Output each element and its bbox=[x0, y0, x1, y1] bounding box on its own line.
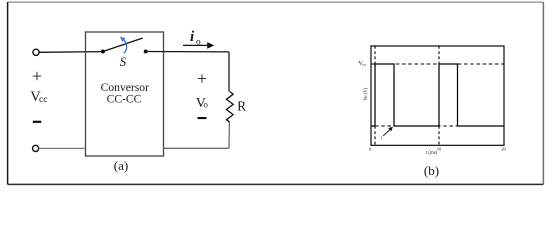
graph annotation arrow t1 bbox=[381, 127, 393, 141]
wire bottom-right corner to box bbox=[164, 147, 230, 149]
current arrow io bbox=[183, 42, 214, 49]
svg-text:o: o bbox=[203, 100, 208, 110]
decorative outer frame bbox=[8, 2, 544, 184]
svg-text:R: R bbox=[237, 98, 246, 113]
wire right vertical (bottom) bbox=[228, 122, 230, 148]
switch S node right bbox=[144, 50, 148, 54]
svg-text:Vo (V): Vo (V) bbox=[364, 87, 369, 101]
svg-text:t (ms): t (ms) bbox=[426, 151, 438, 156]
wire box to bottom terminal bbox=[39, 147, 86, 149]
svg-text:o: o bbox=[196, 38, 201, 48]
terminal top-left (open circle) bbox=[33, 49, 39, 55]
wire switch to top-right corner bbox=[146, 51, 229, 53]
label minus (Vcc) bbox=[33, 121, 42, 123]
waveform Vo square wave bbox=[371, 64, 504, 126]
svg-text:cc: cc bbox=[39, 95, 47, 105]
svg-text:(a): (a) bbox=[114, 158, 128, 173]
terminal bottom-left (open circle) bbox=[33, 145, 39, 151]
switch S blade bbox=[103, 38, 143, 52]
label minus (Vo) bbox=[198, 117, 207, 119]
resistor R zigzag bbox=[226, 92, 233, 123]
wire right vertical (top) bbox=[228, 52, 230, 92]
svg-text:CC-CC: CC-CC bbox=[107, 92, 142, 105]
graph dashed time marker x=375 bbox=[374, 46, 376, 145]
svg-text:20: 20 bbox=[501, 147, 506, 152]
graph (b) axes frame bbox=[371, 46, 504, 145]
svg-text:S: S bbox=[120, 55, 127, 69]
graph dashed zero level line bbox=[375, 125, 458, 127]
switch S actuation arrow (blue) bbox=[120, 37, 127, 54]
graph dashed time marker x=439 bbox=[438, 46, 440, 145]
svg-text:+: + bbox=[32, 66, 42, 86]
graph dashed Vcc level line bbox=[371, 63, 504, 65]
switch S node left bbox=[101, 50, 105, 54]
svg-text:(b): (b) bbox=[424, 163, 439, 178]
converter box U1 bbox=[86, 32, 164, 156]
svg-text:cc: cc bbox=[362, 62, 366, 67]
wire top-left to switch bbox=[39, 51, 103, 54]
svg-text:10: 10 bbox=[437, 147, 442, 152]
svg-text:+: + bbox=[197, 69, 207, 89]
